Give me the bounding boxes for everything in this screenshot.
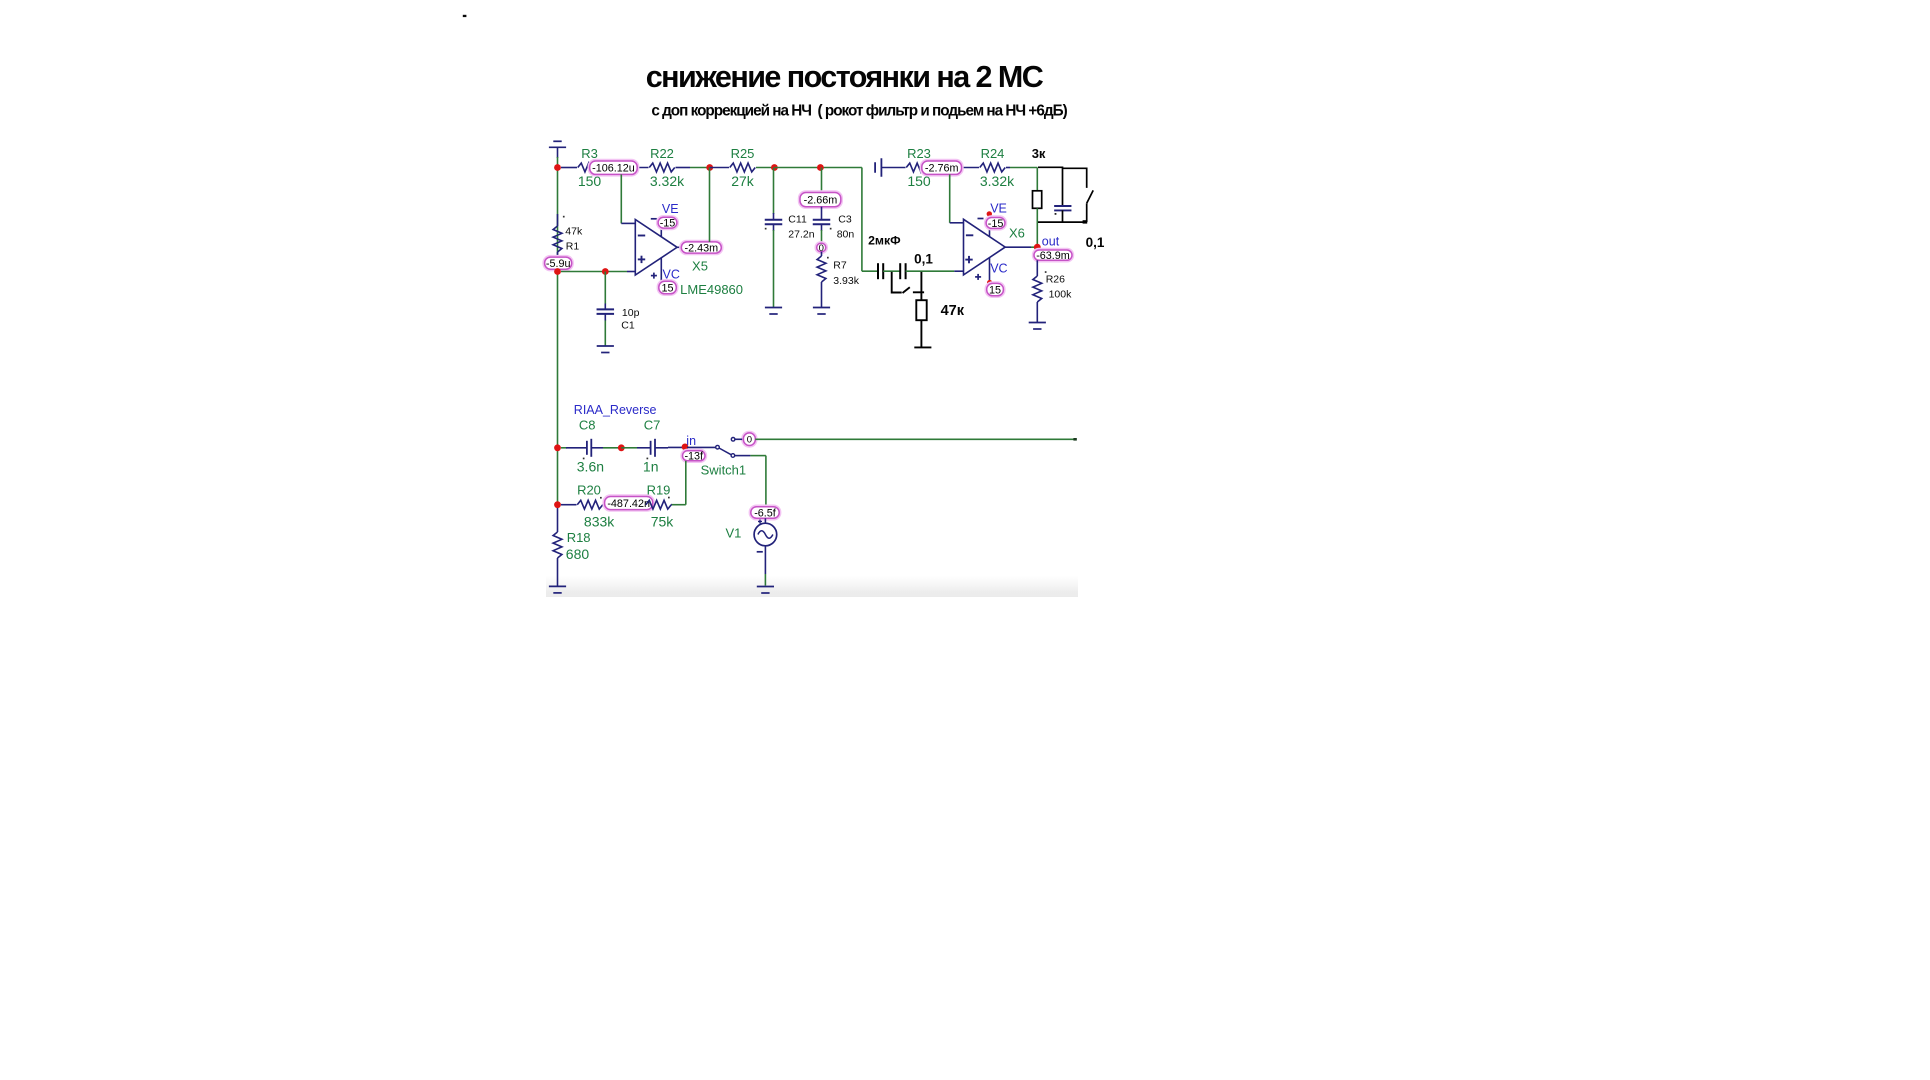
wire X6 feedback — [950, 174, 964, 222]
svg-text:833k: 833k — [584, 513, 615, 529]
resistor R1 — [553, 214, 583, 258]
resistor R19 — [646, 483, 675, 530]
svg-text:X5: X5 — [692, 258, 708, 273]
node junction D1 — [554, 444, 561, 451]
svg-text:75k: 75k — [651, 513, 675, 529]
switch hand-drawn bypass — [892, 272, 924, 293]
label in — [686, 434, 696, 448]
wire C3 column top — [821, 168, 823, 193]
svg-text:-487.42n: -487.42n — [607, 498, 650, 510]
svg-text:80n: 80n — [837, 228, 855, 240]
svg-text:-2.76m: -2.76m — [925, 163, 959, 175]
svg-text:3.6n: 3.6n — [577, 458, 604, 474]
svg-text:R7: R7 — [833, 259, 847, 271]
wire X5 output — [677, 246, 681, 248]
svg-text:R19: R19 — [647, 483, 671, 498]
wire top row to corner — [774, 168, 862, 272]
svg-text:2мкФ: 2мкФ — [868, 233, 901, 247]
node junction D2 — [618, 444, 625, 451]
svg-text:V1: V1 — [725, 526, 741, 541]
voltage source V1 — [725, 518, 776, 585]
wire long output net — [755, 438, 1077, 441]
wire between caps — [883, 270, 900, 272]
svg-text:R26: R26 — [1046, 274, 1065, 286]
svg-text:R18: R18 — [567, 530, 591, 545]
svg-text:3к: 3к — [1032, 146, 1046, 161]
svg-text:47k: 47k — [565, 225, 583, 237]
resistor R23 — [906, 146, 979, 189]
annotation 15 (X6 VC) — [986, 282, 1005, 297]
annotation -487.42n — [603, 495, 654, 511]
svg-text:LME49860: LME49860 — [680, 282, 743, 297]
annotation -15 (X5 VE) — [657, 216, 678, 229]
svg-text:с доп коррекцией на НЧ ( роко: с доп коррекцией на НЧ ( рокот фильтр и … — [651, 103, 1067, 120]
svg-text:in: in — [686, 434, 696, 448]
svg-text:0,1: 0,1 — [1086, 235, 1105, 250]
svg-text:R22: R22 — [650, 146, 674, 161]
resistor R3 — [561, 146, 649, 189]
svg-text:0,1: 0,1 — [914, 252, 933, 267]
wire C8 to D2 — [603, 447, 621, 449]
resistor R22 — [649, 146, 690, 189]
ground G1 (inverted, top-left) — [549, 141, 566, 158]
resistor R20 — [561, 483, 615, 530]
svg-text:-15: -15 — [660, 218, 676, 230]
wire 2uF row left — [862, 270, 878, 272]
svg-text:Switch1: Switch1 — [701, 463, 747, 478]
resistor R7 — [817, 252, 860, 308]
svg-text:-13f: -13f — [684, 451, 704, 463]
svg-text:27k: 27k — [731, 173, 755, 189]
op-amp X6 — [964, 202, 1025, 284]
wire X6 output — [1005, 246, 1037, 248]
node out junction — [1034, 244, 1041, 251]
op-amp X5 — [635, 202, 743, 297]
resistor R24 — [980, 146, 1015, 189]
annotation 15 (X5 VC) — [658, 280, 678, 295]
svg-text:10p: 10p — [622, 307, 640, 319]
subtitle — [651, 103, 1067, 120]
svg-text:-2.66m: -2.66m — [804, 194, 838, 206]
wire noninv row X5 — [561, 271, 635, 273]
svg-text:R1: R1 — [566, 240, 580, 252]
svg-text:RIAA_Reverse: RIAA_Reverse — [574, 403, 657, 417]
capacitor C8 — [561, 418, 604, 475]
stray mark — [463, 15, 467, 17]
wire box to out node — [1036, 208, 1038, 247]
node VC pin X6 — [987, 280, 992, 285]
annotation -63.9m — [1033, 249, 1073, 262]
ground G7 (under V1) — [757, 587, 774, 594]
svg-text:VE: VE — [662, 202, 679, 216]
ground hand-drawn (47k) — [914, 346, 931, 348]
annotation -5.9u — [543, 256, 573, 271]
resistor hand-drawn 3k box — [1033, 191, 1042, 209]
wire C7 to in — [668, 446, 685, 448]
svg-text:15: 15 — [989, 284, 1001, 296]
svg-text:VC: VC — [990, 262, 1007, 276]
annotation -15 (X6 VE) — [985, 216, 1006, 230]
resistor R26 — [1033, 260, 1072, 322]
annotation -2.43m — [680, 241, 722, 255]
svg-text:-6.5f: -6.5f — [754, 507, 777, 519]
svg-text:VE: VE — [990, 202, 1007, 216]
label 47k — [941, 303, 965, 319]
capacitor hand-drawn Ca — [878, 263, 883, 279]
node VE pin X6 — [987, 211, 992, 216]
node junction C2n — [602, 268, 609, 275]
label 0,1 (right) — [1086, 235, 1105, 250]
node junction A4 — [817, 164, 824, 171]
svg-text:C8: C8 — [579, 418, 596, 433]
wire hand-drawn cap bottom — [1062, 210, 1064, 222]
wire 2uF row right — [906, 270, 964, 272]
wire hand-drawn right branch — [1063, 168, 1087, 188]
wire left column — [557, 157, 559, 508]
svg-text:680: 680 — [566, 546, 590, 562]
wire in down to R19 — [671, 461, 686, 505]
node in — [682, 444, 689, 451]
title — [646, 60, 1044, 94]
svg-text:1n: 1n — [643, 458, 659, 474]
annotation 0 (node) — [816, 242, 828, 254]
svg-text:-15: -15 — [988, 218, 1004, 230]
annotation -13f — [681, 450, 706, 463]
svg-text:C7: C7 — [644, 418, 661, 433]
svg-text:out: out — [1042, 234, 1060, 248]
svg-text:-2.43m: -2.43m — [684, 242, 718, 254]
ground G5 (under R26) — [1029, 323, 1046, 330]
capacitor input top (floating) — [875, 158, 905, 177]
node junction A3 — [771, 164, 778, 171]
label 3k — [1032, 146, 1046, 161]
gray band under schematic — [546, 576, 1078, 597]
svg-text:C1: C1 — [621, 320, 635, 332]
capacitor hand-drawn (out RC) — [1054, 206, 1071, 215]
svg-text:-106.12u: -106.12u — [592, 163, 635, 175]
label 2mkF — [868, 233, 901, 247]
annotation -2.66m — [799, 191, 842, 208]
node junction A1 — [554, 164, 561, 171]
svg-text:R25: R25 — [731, 146, 755, 161]
node junction E1 — [554, 501, 561, 508]
svg-text:3.32k: 3.32k — [650, 173, 685, 189]
svg-text:27.2n: 27.2n — [788, 228, 814, 240]
annotation -106.12u — [589, 160, 639, 176]
svg-text:C11: C11 — [788, 214, 807, 226]
label RIAA_Reverse — [574, 403, 657, 417]
annotation -2.76m — [921, 160, 963, 176]
svg-text:снижение постоянки на 2 МС: снижение постоянки на 2 МС — [646, 60, 1044, 94]
svg-text:R24: R24 — [981, 146, 1005, 161]
svg-text:R23: R23 — [907, 146, 931, 161]
wire hand-drawn bottom — [1038, 220, 1087, 223]
capacitor C11 — [765, 168, 815, 308]
resistor hand-drawn 47k column — [916, 272, 926, 348]
wire X5 feedback — [621, 174, 635, 223]
capacitor hand-drawn Cb — [900, 263, 905, 279]
label out — [1042, 234, 1060, 248]
annotation 0 (switch) — [742, 432, 756, 447]
switch hand-drawn (out) — [1087, 190, 1094, 222]
wire switch stub — [735, 438, 742, 440]
node junction C1n — [554, 268, 561, 275]
capacitor C1 — [597, 304, 640, 332]
switch Switch1 — [687, 438, 746, 478]
wire R24 to corner — [1010, 168, 1037, 192]
wire C1 column — [604, 272, 606, 347]
svg-text:100k: 100k — [1049, 288, 1073, 300]
label 0,1 (left) — [914, 252, 933, 267]
ground G4 (under R7) — [813, 308, 830, 315]
annotation -6.5f — [750, 506, 781, 520]
wire hand-drawn top branch — [1038, 167, 1063, 205]
capacitor C3 — [813, 207, 855, 244]
ground G6 (under R18) — [549, 586, 566, 593]
svg-text:3.93k: 3.93k — [833, 275, 859, 287]
ground G3 (under C11) — [765, 308, 782, 315]
svg-text:47к: 47к — [941, 303, 965, 319]
wire X5 out to top junction — [709, 168, 711, 242]
svg-text:R3: R3 — [581, 146, 598, 161]
ground G2 (under C1) — [597, 346, 614, 353]
svg-text:3.32k: 3.32k — [980, 173, 1015, 189]
resistor R25 — [710, 146, 775, 189]
svg-text:15: 15 — [662, 282, 674, 294]
svg-text:C3: C3 — [838, 214, 852, 226]
svg-text:0: 0 — [747, 435, 752, 446]
svg-text:R20: R20 — [577, 483, 601, 498]
wire switch to V1 — [735, 456, 766, 507]
wire R22 to junction — [690, 167, 710, 169]
svg-text:X6: X6 — [1009, 226, 1025, 241]
capacitor C7 — [621, 418, 668, 475]
svg-text:-63.9m: -63.9m — [1036, 250, 1070, 262]
node junction A2 — [706, 164, 713, 171]
resistor R18 — [553, 508, 590, 586]
